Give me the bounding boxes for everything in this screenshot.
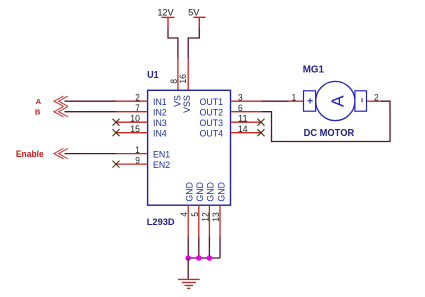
ground bus wire bbox=[188, 257, 220, 259]
pin 10 stub bbox=[116, 121, 148, 123]
junction dot 2 bbox=[196, 255, 202, 261]
svg-text:GND: GND bbox=[216, 182, 226, 202]
svg-text:MG1: MG1 bbox=[303, 65, 325, 76]
svg-text:15: 15 bbox=[130, 124, 140, 134]
svg-text:13: 13 bbox=[211, 212, 221, 222]
pin 8 stub bbox=[177, 59, 179, 91]
svg-text:A: A bbox=[327, 95, 347, 107]
pin 9 stub bbox=[116, 163, 148, 165]
pin 3 stub bbox=[231, 100, 263, 102]
svg-text:16: 16 bbox=[178, 74, 188, 84]
svg-text:GND: GND bbox=[185, 182, 195, 202]
svg-text:5V: 5V bbox=[188, 7, 200, 17]
wire pin 4 to ground bus bbox=[187, 236, 189, 258]
svg-text:7: 7 bbox=[135, 103, 140, 113]
no-connect X pin 9 bbox=[113, 161, 120, 168]
no-connect X pin 10 bbox=[113, 119, 120, 126]
svg-text:11: 11 bbox=[238, 113, 248, 123]
wire 12V to pin 8 bbox=[168, 28, 178, 59]
svg-text:IN4: IN4 bbox=[153, 129, 167, 139]
svg-text:GND: GND bbox=[206, 182, 216, 202]
motor minus sign bbox=[361, 98, 363, 102]
svg-text:B: B bbox=[35, 108, 41, 117]
wire Enable to pin 1 bbox=[65, 153, 117, 155]
svg-text:IN3: IN3 bbox=[153, 118, 167, 128]
junction dot 1 bbox=[185, 255, 191, 261]
wire A to pin 2 bbox=[65, 100, 117, 102]
svg-text:6: 6 bbox=[238, 103, 243, 113]
terminal A chevron bbox=[54, 96, 68, 106]
motor MG1 pin 2 stub bbox=[367, 100, 382, 102]
svg-text:2: 2 bbox=[374, 92, 379, 102]
svg-text:IN2: IN2 bbox=[153, 108, 167, 118]
pin 7 stub bbox=[116, 111, 148, 113]
motor plus sign bbox=[307, 98, 312, 103]
svg-text:OUT1: OUT1 bbox=[200, 97, 224, 107]
pin 15 stub bbox=[116, 132, 148, 134]
power terminal 12V bbox=[162, 17, 175, 28]
motor MG1 right terminal box bbox=[355, 91, 367, 111]
junction dot 3 bbox=[207, 255, 213, 261]
wire pin 13 to ground bus bbox=[219, 236, 221, 258]
pin 11 stub bbox=[231, 121, 263, 123]
svg-text:2: 2 bbox=[135, 92, 140, 102]
wire bus to ground bbox=[187, 258, 189, 279]
wire pin 6 to motor loop bbox=[262, 101, 390, 141]
svg-text:1: 1 bbox=[135, 145, 140, 155]
wire pin 3 to motor bbox=[262, 100, 289, 102]
svg-text:EN1: EN1 bbox=[153, 150, 170, 160]
svg-text:OUT2: OUT2 bbox=[200, 108, 224, 118]
pin 16 stub bbox=[187, 59, 189, 91]
no-connect X pin 11 bbox=[258, 119, 265, 126]
wire B to pin 7 bbox=[65, 111, 117, 113]
svg-text:VSS: VSS bbox=[182, 95, 192, 113]
svg-text:9: 9 bbox=[135, 155, 140, 165]
pin 12 stub bbox=[208, 205, 210, 236]
svg-text:10: 10 bbox=[130, 113, 140, 123]
IC U1 body L293D bbox=[148, 90, 231, 205]
pin 1 stub bbox=[116, 153, 148, 155]
svg-text:GND: GND bbox=[195, 182, 205, 202]
power terminal 5V bbox=[194, 17, 206, 28]
svg-text:Enable: Enable bbox=[16, 149, 44, 159]
svg-text:12V: 12V bbox=[157, 7, 174, 17]
svg-text:OUT4: OUT4 bbox=[200, 129, 224, 139]
motor MG1 circle bbox=[316, 81, 355, 120]
terminal B chevron bbox=[54, 107, 68, 117]
svg-text:EN2: EN2 bbox=[153, 160, 170, 170]
pin 5 stub bbox=[198, 205, 200, 236]
wire pin 5 to ground bus bbox=[198, 236, 200, 258]
motor MG1 left terminal box bbox=[304, 91, 316, 111]
svg-text:A: A bbox=[36, 97, 42, 106]
no-connect X pin 14 bbox=[258, 129, 265, 136]
no-connect X pin 15 bbox=[113, 129, 120, 136]
pin 4 stub bbox=[187, 205, 189, 236]
motor MG1 pin 1 stub bbox=[289, 100, 304, 102]
wire 5V to pin 16 bbox=[188, 28, 199, 59]
pin 14 stub bbox=[231, 132, 263, 134]
svg-text:U1: U1 bbox=[147, 70, 159, 81]
svg-text:3: 3 bbox=[238, 92, 243, 102]
svg-text:L293D: L293D bbox=[147, 216, 175, 227]
ground symbol bbox=[178, 279, 200, 288]
terminal Enable chevron bbox=[54, 148, 68, 158]
svg-text:14: 14 bbox=[238, 124, 248, 134]
pin 6 stub bbox=[231, 111, 263, 113]
svg-text:5: 5 bbox=[190, 212, 200, 217]
svg-text:4: 4 bbox=[179, 212, 189, 217]
svg-text:1: 1 bbox=[292, 92, 297, 102]
svg-text:OUT3: OUT3 bbox=[200, 118, 224, 128]
pin 2 stub bbox=[116, 100, 148, 102]
wire pin 12 to ground bus bbox=[208, 236, 210, 258]
svg-text:DC MOTOR: DC MOTOR bbox=[304, 128, 355, 139]
svg-text:12: 12 bbox=[200, 212, 210, 222]
svg-text:IN1: IN1 bbox=[153, 97, 167, 107]
pin 13 stub bbox=[219, 205, 221, 236]
